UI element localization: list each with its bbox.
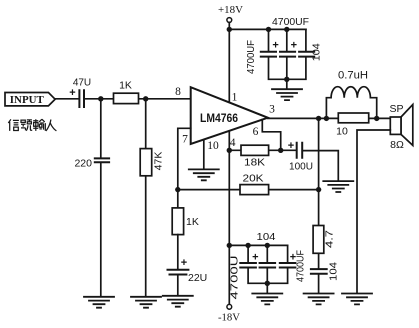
capacitor C 4700UF (top left): [246, 40, 279, 74]
node -18V rail left: [227, 243, 232, 248]
node +18V rail: [227, 27, 232, 32]
node bottom bypass bottom rail: [265, 281, 270, 286]
wire +18V rail: [229, 28, 306, 30]
ground (100U): [323, 181, 353, 192]
svg-text:100U: 100U: [289, 162, 313, 173]
-18V terminal: [218, 304, 240, 323]
capacitor C 100U: [288, 140, 313, 173]
svg-text:0.7uH: 0.7uH: [338, 69, 368, 81]
svg-text:10: 10: [336, 125, 348, 137]
wire 47K branch: [145, 99, 147, 296]
svg-text:LM4766: LM4766: [200, 111, 238, 125]
wire bottom bypass branches: [248, 245, 288, 293]
svg-text:22U: 22U: [188, 272, 207, 284]
wire output column (zobel): [318, 118, 320, 293]
svg-text:4: 4: [230, 137, 236, 149]
capacitor C 47U (plates): [69, 78, 91, 108]
svg-text:+: +: [272, 40, 278, 52]
capacitor C (bottom middle): [259, 263, 277, 268]
svg-text:1K: 1K: [119, 80, 132, 92]
op-amp U LM4766: [191, 87, 268, 144]
pin 6 wire: [262, 120, 280, 151]
resistor R 1K (feedback shunt): [172, 208, 199, 235]
ground (bottom bypass): [252, 294, 282, 305]
wire 220 branch: [100, 99, 102, 296]
input terminal INPUT tag: [5, 93, 55, 107]
svg-text:+: +: [252, 252, 258, 264]
ground (47K branch): [131, 297, 161, 308]
svg-text:SP: SP: [389, 103, 403, 115]
svg-text:+: +: [181, 257, 187, 269]
node rail/cap2: [284, 27, 289, 32]
wire 1K to 22U: [177, 235, 179, 270]
inductor L 0.7uH: [326, 69, 376, 118]
svg-text:18K: 18K: [244, 158, 265, 169]
svg-text:4700U: 4700U: [230, 256, 241, 300]
wire C47U to opamp pin8: [85, 98, 191, 100]
svg-text:+18V: +18V: [218, 5, 243, 16]
ground (top bypass): [272, 89, 302, 100]
resistor R 20K: [240, 173, 269, 194]
pin 7 wire: [178, 128, 191, 208]
svg-text:4700UF: 4700UF: [246, 40, 257, 74]
svg-text:6: 6: [253, 126, 259, 138]
pin 4 wire (to -18V rail): [228, 131, 230, 246]
node B (after R 1K): [143, 96, 148, 101]
ground (speaker return): [342, 294, 372, 305]
node inductor right: [374, 116, 379, 121]
wire -18V rail: [229, 244, 287, 246]
node 20K left (pin7 column): [175, 187, 180, 192]
wire top bypass branches: [269, 29, 306, 88]
svg-text:104: 104: [329, 262, 340, 281]
capacitor C 4700U (bottom left): [230, 252, 259, 300]
ground (pin 10): [189, 169, 219, 180]
svg-text:+: +: [69, 87, 75, 99]
capacitor C 220: [74, 158, 110, 170]
resistor R 18K: [241, 145, 269, 168]
svg-text:8Ω: 8Ω: [390, 139, 404, 151]
capacitor C 4700UF (bottom right): [279, 250, 307, 282]
svg-text:4700UF: 4700UF: [296, 250, 307, 282]
svg-text:7: 7: [182, 134, 188, 146]
svg-text:1: 1: [232, 91, 238, 103]
node top bypass bottom rail: [284, 77, 289, 82]
wire 18K row: [229, 149, 296, 151]
node rail/cap1: [266, 27, 271, 32]
node rail/cap2 (bottom): [265, 243, 270, 248]
svg-text:+: +: [288, 140, 294, 152]
speaker SP: [389, 103, 412, 151]
label 信號輸入 (drawn strokes): [8, 119, 56, 131]
ground (zobel): [304, 294, 334, 305]
capacitor C 104 (top right): [298, 43, 322, 61]
node 20K right (output column): [316, 187, 321, 192]
capacitor C 22U: [167, 257, 208, 284]
svg-text:10: 10: [207, 140, 219, 152]
capacitor C 4700UF (top middle): [279, 40, 297, 57]
svg-text:-18V: -18V: [218, 313, 240, 324]
svg-text:47U: 47U: [73, 78, 91, 89]
wire output (pin 3): [268, 117, 391, 119]
wire 20K row: [178, 189, 319, 191]
svg-text:220: 220: [74, 158, 92, 170]
svg-text:4700UF: 4700UF: [272, 17, 309, 28]
resistor R 4.7: [313, 226, 336, 254]
node rail/cap1 (bottom): [245, 243, 250, 248]
node input A: [98, 96, 103, 101]
ground (22U branch): [163, 296, 193, 307]
resistor R 47K: [140, 149, 164, 176]
node output/inductor: [324, 116, 329, 121]
svg-text:104: 104: [312, 43, 323, 61]
svg-text:+: +: [291, 40, 297, 52]
wire 100U to ground: [303, 151, 338, 181]
ground (220 branch): [84, 297, 114, 308]
+18V terminal: [218, 5, 243, 23]
capacitor C 104 (zobel): [310, 262, 340, 281]
wire rail to -18V terminal: [228, 245, 230, 304]
resistor R 10: [336, 113, 369, 137]
resistor R 1K (input series): [114, 80, 139, 104]
svg-text:104: 104: [257, 232, 276, 243]
svg-text:20K: 20K: [243, 173, 264, 184]
wire +18V to pin 1: [228, 22, 230, 102]
wire 22U to ground: [177, 275, 179, 295]
svg-text:47K: 47K: [153, 152, 165, 171]
node pin4/18K: [227, 148, 232, 153]
svg-text:INPUT: INPUT: [10, 95, 44, 106]
node pin6/18K/100U: [278, 148, 283, 153]
svg-text:8: 8: [175, 86, 181, 98]
svg-text:3: 3: [269, 103, 275, 115]
svg-text:1K: 1K: [186, 216, 199, 228]
wire speaker return: [357, 130, 390, 293]
wire input tag to C 47U: [55, 98, 79, 100]
svg-text:4.7: 4.7: [325, 229, 336, 248]
pin 10 wire: [203, 140, 205, 169]
node output/zobel: [316, 116, 321, 121]
